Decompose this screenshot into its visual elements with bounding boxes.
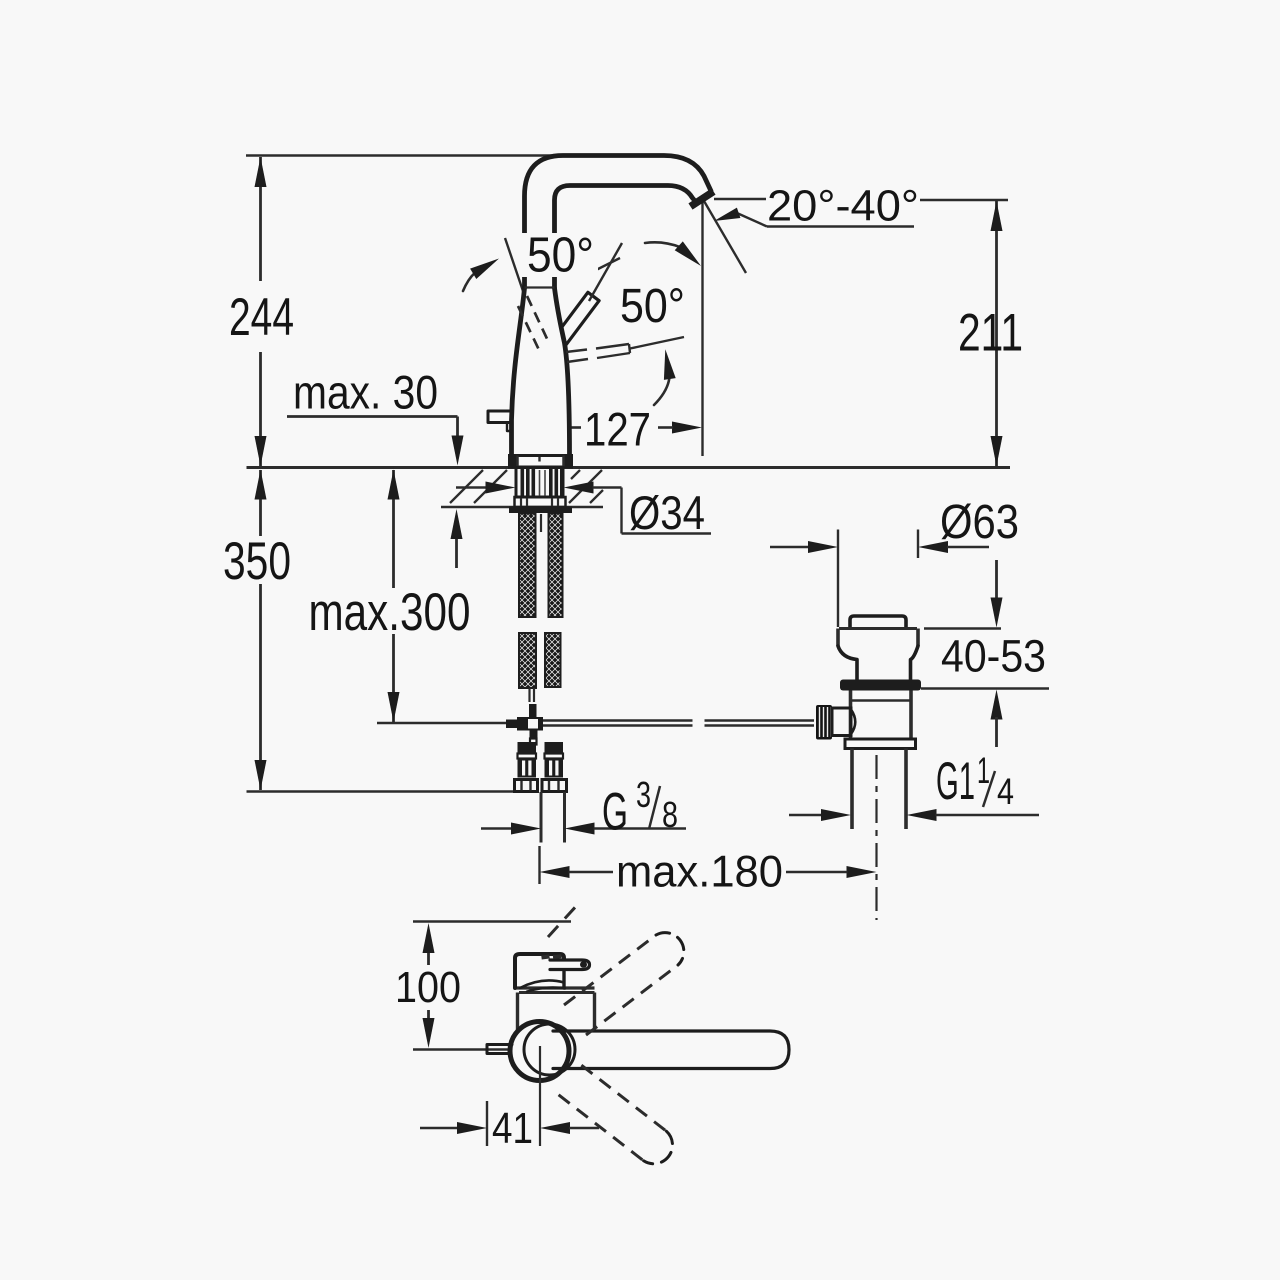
svg-text:max.180: max.180 (616, 848, 783, 897)
svg-text:Ø34: Ø34 (629, 486, 705, 539)
svg-text:4: 4 (997, 771, 1014, 812)
svg-text:211: 211 (958, 304, 1023, 363)
svg-text:3: 3 (636, 774, 651, 815)
svg-text:Ø63: Ø63 (940, 496, 1019, 549)
svg-text:244: 244 (229, 288, 294, 347)
svg-text:max. 30: max. 30 (293, 366, 438, 419)
svg-text:100: 100 (395, 963, 461, 1012)
svg-text:G1: G1 (936, 752, 975, 811)
svg-text:G: G (602, 783, 628, 842)
svg-text:350: 350 (223, 532, 291, 591)
svg-text:50°: 50° (620, 280, 685, 333)
svg-text:20°-40°: 20°-40° (767, 183, 919, 231)
svg-text:127: 127 (584, 403, 651, 456)
svg-text:50°: 50° (527, 229, 594, 283)
svg-text:8: 8 (662, 794, 678, 835)
svg-text:41: 41 (492, 1104, 533, 1153)
svg-text:1: 1 (977, 750, 990, 791)
svg-text:max.300: max.300 (309, 583, 471, 642)
svg-text:40-53: 40-53 (941, 631, 1046, 682)
